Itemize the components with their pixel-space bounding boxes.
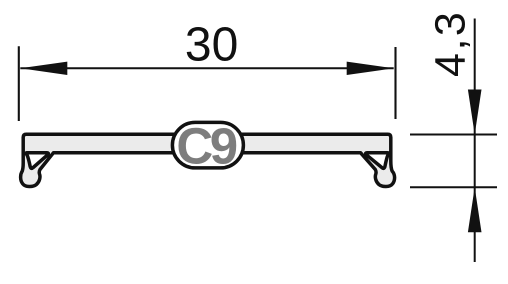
dimension 30: right extension line	[394, 47, 396, 119]
dimension 4,3: upper leader line	[474, 19, 476, 188]
dimension 30: left arrowhead	[20, 62, 67, 75]
svg-text:4,3: 4,3	[427, 10, 475, 77]
svg-text:C9: C9	[176, 117, 236, 174]
dimension 4,3: down arrowhead	[468, 90, 482, 135]
dimension 4,3: up arrowhead	[468, 187, 482, 232]
badge C9 outline	[172, 122, 243, 167]
dimension 30: right arrowhead	[347, 62, 394, 75]
dimension 4,3: lower object line	[410, 186, 497, 188]
dimension 30: left extension line	[18, 46, 20, 121]
dimension 4,3: lower leader line	[474, 187, 476, 262]
dimension 4,3: upper object line	[410, 134, 497, 136]
svg-text:30: 30	[185, 19, 238, 72]
profile cover cross-section body	[21, 134, 395, 186]
dimension 30: dimension line	[20, 67, 393, 69]
